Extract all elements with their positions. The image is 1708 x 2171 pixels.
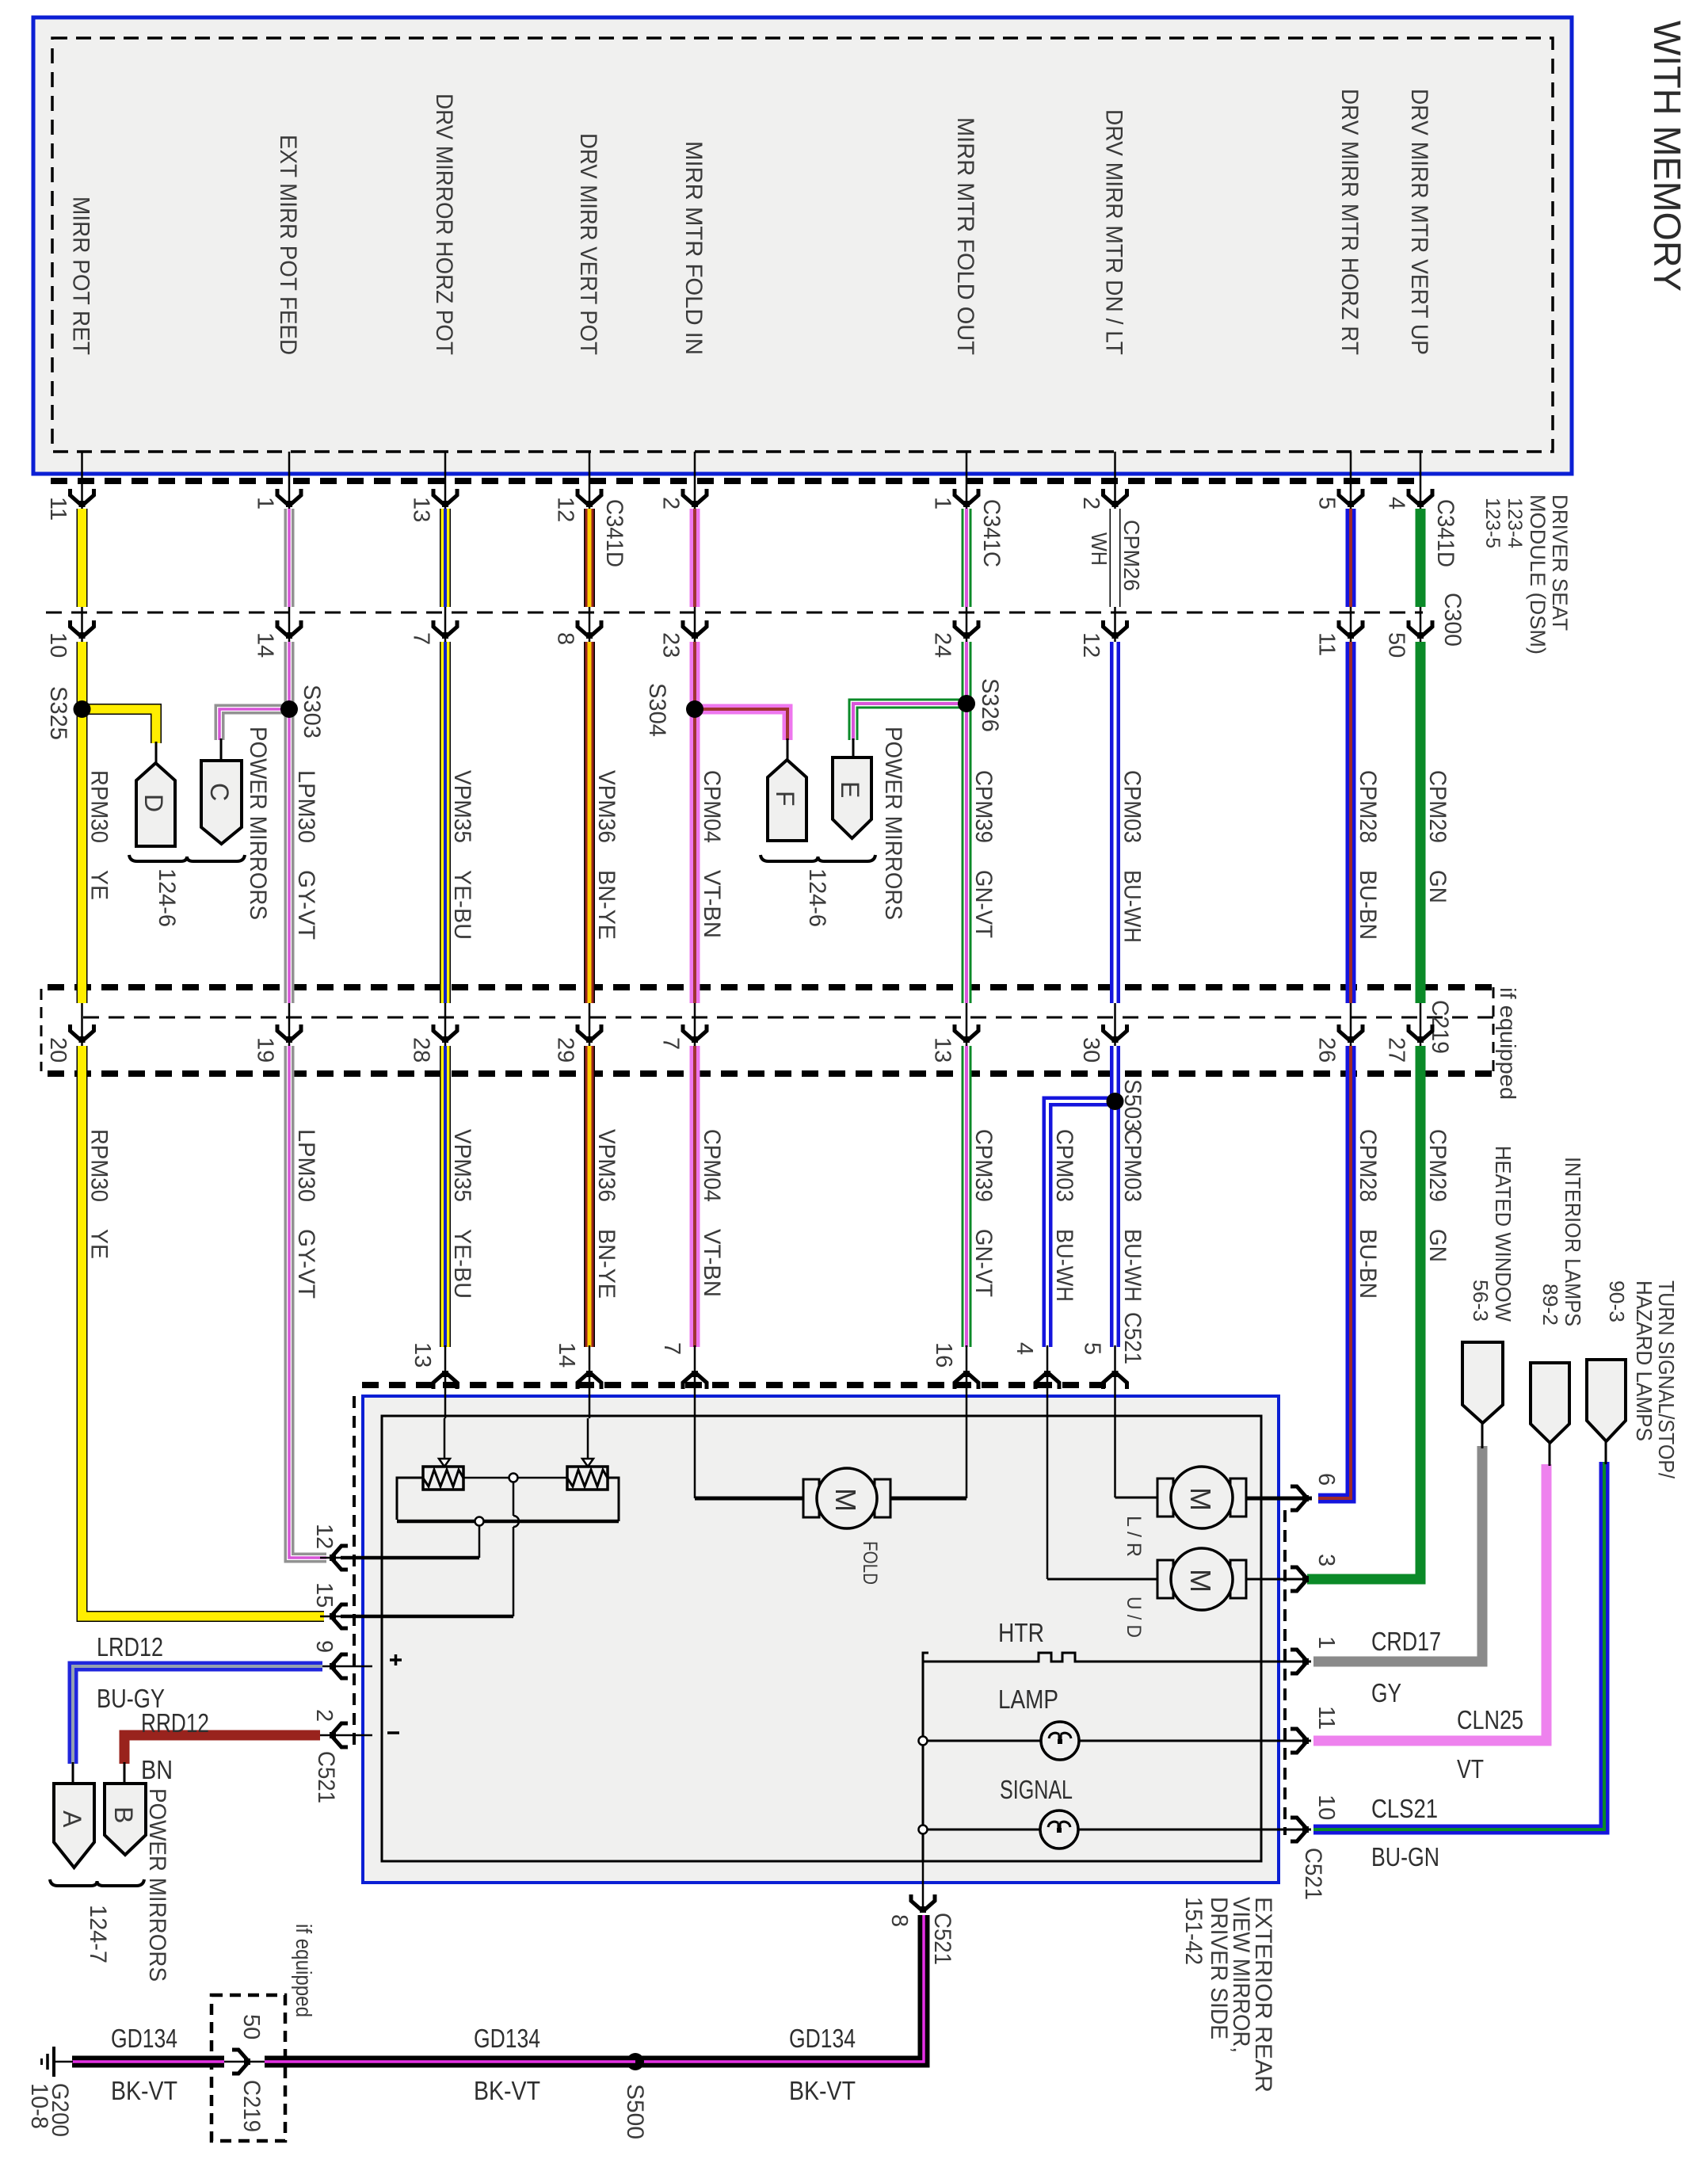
connector C521 left dashed edge (353, 1396, 356, 1749)
svg-text:M: M (829, 1488, 862, 1512)
connector E (833, 757, 871, 838)
svg-text:151-42: 151-42 (1180, 1897, 1207, 1965)
wire seg2 CPM04 VT-BN col5 (690, 642, 700, 1003)
wire stub col3 (444, 452, 447, 513)
svg-text:BK-VT: BK-VT (474, 2076, 540, 2105)
svg-text:POWER MIRRORS: POWER MIRRORS (245, 727, 271, 920)
svg-text:GY: GY (1371, 1678, 1401, 1707)
wire seg1 CPM29 GN col9 (1416, 509, 1426, 607)
wire LPM30 GY-VT seg3 to mirror pin 12 (289, 1046, 326, 1558)
svg-text:1: 1 (253, 497, 278, 509)
pin arrow row1 col1 (71, 489, 94, 507)
mirror left pin 15 stub (320, 1616, 382, 1618)
wire seg2 VPM36 BN-YE col4 (584, 642, 595, 1003)
svg-text:CRD17: CRD17 (1371, 1627, 1441, 1656)
connector F stem (787, 738, 789, 761)
pin arrow row3 col2 (277, 1024, 301, 1043)
svg-text:C521: C521 (1119, 1312, 1146, 1364)
svg-text:5: 5 (1080, 1342, 1105, 1355)
mirror top pin 16 arrow (955, 1371, 978, 1389)
pin arrow row3 col8 (1339, 1024, 1363, 1043)
mirror pin 8 (922, 1861, 925, 1911)
svg-text:26: 26 (1314, 1037, 1340, 1063)
wire CRD17 GY (1313, 1446, 1482, 1662)
off-page connector HEATED WINDOW (1462, 1342, 1503, 1423)
svg-text:BN-YE: BN-YE (593, 870, 620, 940)
off-page connector TURN SIGNAL/STOP/HAZARD LAMPS (1587, 1360, 1626, 1441)
mirror right pin 3 arrow (1291, 1567, 1309, 1591)
svg-text:C521: C521 (1300, 1848, 1326, 1900)
svg-text:M: M (1184, 1487, 1217, 1511)
mirror right pin 1 arrow (1291, 1650, 1309, 1673)
svg-text:WITH MEMORY: WITH MEMORY (1645, 21, 1687, 292)
wire stub col2 (288, 452, 291, 513)
svg-text:24: 24 (930, 632, 955, 658)
svg-text:A: A (58, 1810, 86, 1828)
wire VPM35 YE-BU seg3 (440, 1046, 451, 1347)
svg-text:RPM30: RPM30 (86, 1129, 112, 1202)
pin arrow row1 col3 (433, 489, 457, 507)
interior lamps connector stem (1549, 1441, 1551, 1466)
svg-text:CPM04: CPM04 (699, 770, 725, 843)
svg-text:FOLD: FOLD (859, 1541, 881, 1585)
mirror top pin 5 arrow (1104, 1371, 1127, 1389)
svg-text:E: E (836, 781, 864, 798)
connector F (768, 760, 806, 841)
connector A (54, 1784, 94, 1868)
splice S325 branch yellow (82, 709, 156, 743)
motor L/R (1157, 1478, 1173, 1517)
svg-text:DRV MIRR MTR VERT UP: DRV MIRR MTR VERT UP (1406, 89, 1432, 355)
node lamp junction (919, 1737, 928, 1746)
svg-text:89-2: 89-2 (1538, 1284, 1562, 1326)
splice S503 (1107, 1093, 1124, 1110)
svg-text:VPM35: VPM35 (449, 1129, 475, 1202)
svg-text:BN-YE: BN-YE (593, 1229, 620, 1299)
svg-text:C521: C521 (929, 1913, 955, 1965)
svg-text:C: C (205, 783, 234, 801)
pin arrow row1 col9 (1409, 489, 1432, 507)
pin arrow row1 col8 (1339, 489, 1363, 507)
wire GD134 BK-VT middle segment (265, 2056, 635, 2068)
svg-text:10: 10 (1313, 1795, 1339, 1820)
svg-text:L / R: L / R (1123, 1516, 1145, 1557)
DSM inner dashed border (52, 38, 1553, 452)
pot wiring rails (397, 1478, 423, 1520)
mirror top pin 4 arrow (1035, 1371, 1059, 1389)
connector C341 thick dashed row (51, 478, 1418, 484)
svg-text:DRV MIRR MTR DN / LT: DRV MIRR MTR DN / LT (1101, 109, 1127, 355)
svg-text:10: 10 (45, 632, 71, 658)
svg-text:CPM03: CPM03 (1119, 770, 1146, 843)
potentiometer horizontal pot (423, 1467, 463, 1490)
svg-text:123-5: 123-5 (1481, 498, 1504, 548)
svg-text:50: 50 (238, 2014, 264, 2039)
svg-text:DRV MIRROR HORZ POT: DRV MIRROR HORZ POT (431, 93, 457, 355)
pin arrow row3 col6 (955, 1024, 978, 1043)
svg-text:TURN SIGNAL/STOP/: TURN SIGNAL/STOP/ (1654, 1280, 1679, 1478)
connector C521 top dashed edge (362, 1382, 1114, 1388)
svg-text:124-6: 124-6 (154, 868, 180, 927)
svg-text:GN: GN (1424, 870, 1451, 903)
svg-text:8: 8 (886, 1914, 912, 1927)
wire LR motor to pin 6 (1244, 1497, 1312, 1501)
svg-text:GN-VT: GN-VT (970, 1229, 997, 1297)
mirror top pin 5 stub (1114, 1345, 1116, 1418)
svg-text:29: 29 (553, 1037, 578, 1063)
svg-text:CPM39: CPM39 (970, 1129, 997, 1202)
svg-text:DRIVER SEAT: DRIVER SEAT (1548, 494, 1572, 631)
wire CPM03 BU-WH C521 seg3 to pin5 (1110, 1046, 1120, 1347)
svg-text:10-8: 10-8 (26, 2083, 52, 2129)
svg-text:U / D: U / D (1123, 1597, 1145, 1638)
svg-text:S503: S503 (1119, 1079, 1146, 1131)
svg-text:LPM30: LPM30 (293, 770, 319, 843)
svg-text:11: 11 (1314, 632, 1340, 656)
splice S325 (74, 700, 91, 718)
wire seg1 CPM04 VT-BN col5 (690, 509, 700, 607)
wire CPM04 VT-BN seg3 (690, 1046, 700, 1347)
wire LRD12 BU-GY (73, 1666, 322, 1764)
svg-text:EXT MIRR POT FEED: EXT MIRR POT FEED (275, 135, 301, 355)
svg-text:DRV MIRR VERT POT: DRV MIRR VERT POT (575, 133, 601, 355)
mirror left pin 9 arrow (330, 1654, 348, 1678)
C219 ground arrow (232, 2050, 250, 2074)
wire seg2 CPM29 GN col9 (1416, 642, 1426, 1003)
wire seg1 LPM30 GY-VT col2 (284, 509, 295, 607)
svg-text:16: 16 (931, 1342, 956, 1368)
svg-text:9: 9 (311, 1640, 337, 1653)
svg-text:VPM36: VPM36 (593, 1129, 620, 1202)
svg-text:C341D: C341D (1432, 499, 1458, 567)
splice S326 (958, 695, 975, 712)
splice S303 (280, 700, 298, 718)
svg-text:CLS21: CLS21 (1371, 1794, 1438, 1823)
pin arrow row3 col9 (1409, 1024, 1432, 1043)
motor FOLD (803, 1479, 819, 1517)
svg-text:S500: S500 (622, 2084, 648, 2139)
svg-text:BK-VT: BK-VT (111, 2076, 177, 2105)
pin arrow row2 col4 (578, 620, 601, 639)
turn signal connector stem (1605, 1440, 1607, 1464)
svg-text:DRIVER SIDE: DRIVER SIDE (1206, 1897, 1232, 2039)
pin arrow row3 col1 (71, 1024, 94, 1043)
svg-text:BU-WH: BU-WH (1051, 1229, 1077, 1302)
wire RRD12 BN (124, 1735, 320, 1764)
svg-text:S303: S303 (299, 685, 325, 738)
connector C219 ground box (212, 1995, 285, 2141)
mirror left pin 2 arrow (330, 1723, 348, 1747)
svg-text:LPM30: LPM30 (293, 1129, 319, 1202)
connector C stem (220, 738, 223, 762)
pin arrow row2 col6 (955, 620, 978, 639)
mirror top pin 14 stub (589, 1345, 591, 1418)
splice S304 branch violet-brown (695, 709, 787, 740)
mirror top pin 13 stub (444, 1345, 447, 1418)
mirror interior return bus (922, 1662, 925, 1861)
wire GD134 BK-VT ground segment (72, 2056, 224, 2068)
svg-text:CPM29: CPM29 (1424, 770, 1451, 843)
wire pin13 to pot1 (444, 1418, 446, 1462)
motor U/D (1157, 1560, 1173, 1598)
svg-text:RRD12: RRD12 (141, 1708, 209, 1738)
svg-text:MODULE (DSM): MODULE (DSM) (1526, 494, 1550, 654)
mirror left pin 15 arrow (330, 1604, 348, 1628)
svg-text:4: 4 (1012, 1342, 1037, 1355)
svg-text:YE-BU: YE-BU (449, 870, 475, 940)
pin arrow row2 col2 (277, 620, 301, 639)
svg-text:YE-BU: YE-BU (449, 1229, 475, 1299)
connector D stem (155, 742, 158, 765)
node top rail junction (509, 1474, 518, 1482)
pin arrow row1 col4 (578, 489, 601, 507)
svg-text:CPM03: CPM03 (1119, 1129, 1146, 1202)
svg-text:CPM26: CPM26 (1119, 520, 1144, 591)
splice S500 (627, 2053, 644, 2070)
pin arrow row3 col4 (578, 1024, 601, 1043)
svg-text:7: 7 (409, 632, 434, 645)
brace connectors E F (761, 855, 875, 861)
svg-text:CPM29: CPM29 (1424, 1129, 1451, 1202)
wire seg2 VPM35 YE-BU col3 (440, 642, 451, 1003)
connector D (136, 763, 175, 846)
node signal junction (919, 1826, 928, 1834)
svg-text:VT-BN: VT-BN (699, 1229, 725, 1297)
svg-text:GN: GN (1424, 1229, 1451, 1262)
svg-text:5: 5 (1314, 497, 1340, 509)
lamp bulb (1041, 1722, 1079, 1760)
wire seg2 RPM30 YE col1 (77, 642, 88, 1003)
svg-text:30: 30 (1078, 1037, 1104, 1063)
svg-text:BU-BN: BU-BN (1355, 870, 1381, 940)
svg-text:124-7: 124-7 (85, 1905, 111, 1963)
pin arrow row2 col1 (71, 620, 94, 639)
svg-text:1: 1 (1313, 1636, 1339, 1649)
svg-text:CPM03: CPM03 (1051, 1129, 1077, 1202)
svg-text:SIGNAL: SIGNAL (1000, 1775, 1073, 1804)
wire pin16 to fold motor (966, 1418, 968, 1498)
svg-text:2: 2 (311, 1709, 337, 1722)
svg-text:BU-WH: BU-WH (1119, 870, 1146, 943)
wire stub col4 (589, 452, 591, 513)
wire seg1 VPM35 YE-BU col3 (440, 509, 451, 607)
svg-text:C521: C521 (313, 1751, 339, 1803)
svg-text:F: F (771, 791, 799, 807)
mirror top pin 16 stub (966, 1345, 968, 1418)
svg-text:MIRR MTR FOLD OUT: MIRR MTR FOLD OUT (952, 117, 978, 355)
wire seg1 CPM03 BU-WH col7 (1110, 509, 1121, 607)
connector C (201, 761, 242, 844)
svg-text:3: 3 (1313, 1554, 1339, 1566)
svg-text:RPM30: RPM30 (86, 770, 112, 843)
svg-text:LAMP: LAMP (998, 1685, 1058, 1714)
svg-text:HAZARD LAMPS: HAZARD LAMPS (1632, 1280, 1657, 1441)
exterior mirror box inner (382, 1416, 1261, 1861)
svg-text:8: 8 (553, 632, 578, 645)
svg-text:S326: S326 (977, 678, 1003, 732)
svg-text:CPM28: CPM28 (1355, 770, 1381, 843)
signal bulb (1040, 1810, 1078, 1849)
brace connectors A B (50, 1879, 144, 1886)
lamp wire (923, 1740, 1311, 1742)
wire seg1 CPM39 GN-VT col6 (962, 509, 972, 607)
mirror left pin 12 stub (320, 1557, 382, 1559)
svg-text:B: B (109, 1807, 138, 1823)
wire seg2 CPM03 BU-WH col7 (1110, 642, 1120, 1003)
mirror right pin 11 arrow (1291, 1729, 1309, 1753)
plus mark (390, 1654, 402, 1665)
svg-text:if equipped: if equipped (1496, 987, 1520, 1100)
svg-text:HEATED WINDOW: HEATED WINDOW (1491, 1146, 1515, 1322)
svg-text:C219: C219 (238, 2080, 265, 2132)
svg-text:90-3: 90-3 (1605, 1280, 1629, 1322)
wire stub col6 (966, 452, 968, 513)
mirror left pin 9 stub (320, 1665, 372, 1668)
svg-text:27: 27 (1384, 1037, 1409, 1063)
pin arrow row3 col7 (1104, 1024, 1127, 1043)
wire VPM36 BN-YE seg3 (584, 1046, 595, 1347)
svg-text:BU-BN: BU-BN (1355, 1229, 1381, 1299)
svg-text:11: 11 (1313, 1706, 1339, 1730)
wire seg1 VPM36 BN-YE col4 (584, 509, 595, 607)
driver seat module DSM box (33, 17, 1572, 474)
pin arrow row3 col5 (683, 1024, 707, 1043)
svg-text:GD134: GD134 (474, 2024, 540, 2053)
mirror top pin 4 stub (1047, 1345, 1049, 1418)
svg-text:C341D: C341D (601, 499, 627, 567)
wire seg2 CPM39 GN-VT col6 (962, 642, 972, 1003)
svg-text:15: 15 (311, 1582, 337, 1608)
wire pin5 to LR motor (1114, 1418, 1116, 1498)
wire junction to pin 12 (478, 1526, 481, 1558)
svg-text:13: 13 (410, 1342, 435, 1368)
off-page connector INTERIOR LAMPS (1531, 1363, 1569, 1443)
wire stub col9 (1420, 452, 1422, 513)
svg-text:2: 2 (658, 497, 684, 509)
svg-text:BN: BN (141, 1755, 173, 1784)
connector E stem (852, 738, 855, 759)
svg-text:11: 11 (45, 497, 71, 521)
svg-text:BU-GN: BU-GN (1371, 1842, 1439, 1871)
splice S304 (686, 700, 703, 718)
wire GD134 BK-VT from pin 8 (635, 1915, 924, 2062)
wire CLS21 BU-GN (1313, 1462, 1604, 1830)
ground G200 (54, 2061, 73, 2063)
svg-text:C300: C300 (1439, 593, 1466, 647)
svg-text:GY-VT: GY-VT (293, 870, 319, 940)
svg-text:12: 12 (553, 497, 578, 522)
mirror left pin 12 arrow (330, 1546, 348, 1570)
node bottom rail junction (475, 1517, 484, 1526)
svg-text:BU-WH: BU-WH (1119, 1229, 1146, 1302)
splice S326 branch green-violet (853, 704, 966, 740)
wire seg2 LPM30 GY-VT col2 (284, 642, 295, 1003)
heater element and wire (923, 1653, 1311, 1662)
wire CLN25 VT (1313, 1464, 1546, 1741)
wire seg2 CPM28 BU-BN col8 (1346, 642, 1356, 1003)
wire pin14 to pot2 (587, 1418, 589, 1462)
pin arrow row3 col3 (433, 1024, 457, 1043)
connector A stem (72, 1762, 74, 1785)
pin arrow row2 col3 (433, 620, 457, 639)
wire CPM28 BU-BN seg3 to pin 6 (1318, 1046, 1351, 1498)
mirror top pin 14 arrow (578, 1371, 601, 1389)
svg-text:7: 7 (659, 1342, 684, 1355)
wire RPM30 YE seg3 to mirror pin 15 (82, 1046, 325, 1616)
mirror right pin 10 arrow (1291, 1818, 1309, 1841)
svg-text:2: 2 (1078, 497, 1104, 509)
svg-text:GN-VT: GN-VT (970, 870, 997, 938)
svg-text:CPM04: CPM04 (699, 1129, 725, 1202)
svg-text:124-6: 124-6 (804, 868, 830, 927)
wire pin7 to fold motor (694, 1418, 696, 1498)
svg-text:C341C: C341C (978, 499, 1005, 567)
wire CPM29 GN seg3 to pin 3 (1307, 1046, 1420, 1579)
svg-text:LRD12: LRD12 (97, 1632, 163, 1662)
svg-text:CLN25: CLN25 (1457, 1705, 1523, 1734)
svg-text:YE: YE (86, 1229, 112, 1259)
svg-text:50: 50 (1384, 632, 1409, 658)
pin arrow row2 col7 (1104, 620, 1127, 639)
wire seg1 RPM30 YE col1 (77, 509, 88, 607)
wire pin4 to UD motor (1047, 1418, 1049, 1579)
svg-text:WH: WH (1087, 532, 1111, 566)
potentiometer vertical pot (567, 1467, 608, 1490)
svg-text:INTERIOR LAMPS: INTERIOR LAMPS (1561, 1157, 1585, 1326)
svg-text:M: M (1184, 1569, 1217, 1593)
wire stub col5 (694, 452, 696, 513)
mirror top pin 7 arrow (683, 1371, 707, 1389)
pin arrow row1 col2 (277, 489, 301, 507)
svg-text:DRV MIRR MTR HORZ RT: DRV MIRR MTR HORZ RT (1336, 89, 1363, 355)
svg-text:6: 6 (1313, 1473, 1339, 1486)
wire top junction to pin 15 with hop (513, 1482, 515, 1516)
pin arrow row1 col6 (955, 489, 978, 507)
svg-text:1: 1 (930, 497, 955, 509)
connector B stem (124, 1762, 126, 1785)
svg-text:CPM28: CPM28 (1355, 1129, 1381, 1202)
svg-text:14: 14 (554, 1342, 579, 1368)
svg-text:CPM39: CPM39 (970, 770, 997, 843)
svg-text:MIRR MTR FOLD IN: MIRR MTR FOLD IN (681, 141, 707, 355)
pin arrow row1 col7 (1104, 489, 1127, 507)
pin arrow row2 col9 (1409, 620, 1432, 639)
exterior mirror box outer (363, 1396, 1279, 1883)
svg-text:YE: YE (86, 870, 112, 900)
svg-text:D: D (139, 794, 168, 812)
svg-text:28: 28 (409, 1037, 434, 1063)
svg-text:23: 23 (658, 632, 684, 658)
svg-text:13: 13 (930, 1037, 955, 1063)
svg-text:POWER MIRRORS: POWER MIRRORS (144, 1788, 170, 1982)
svg-text:if equipped: if equipped (292, 1924, 316, 2017)
minus mark (387, 1731, 399, 1734)
connector B (105, 1784, 146, 1855)
wire seg1 CPM28 BU-BN col8 (1346, 509, 1356, 607)
svg-text:19: 19 (253, 1037, 278, 1063)
svg-text:S325: S325 (45, 686, 71, 740)
svg-text:S304: S304 (644, 683, 670, 737)
svg-text:20: 20 (45, 1037, 71, 1063)
mirror right pin 6 arrow (1291, 1486, 1309, 1510)
svg-text:BK-VT: BK-VT (789, 2076, 856, 2105)
pin 8 arrow (911, 1894, 935, 1913)
wire UD motor to pin 3 (1244, 1578, 1309, 1581)
svg-text:GY-VT: GY-VT (293, 1229, 319, 1299)
svg-text:12: 12 (311, 1524, 337, 1549)
connector C300 thin dashed row (46, 612, 1423, 614)
svg-text:HTR: HTR (998, 1618, 1044, 1647)
